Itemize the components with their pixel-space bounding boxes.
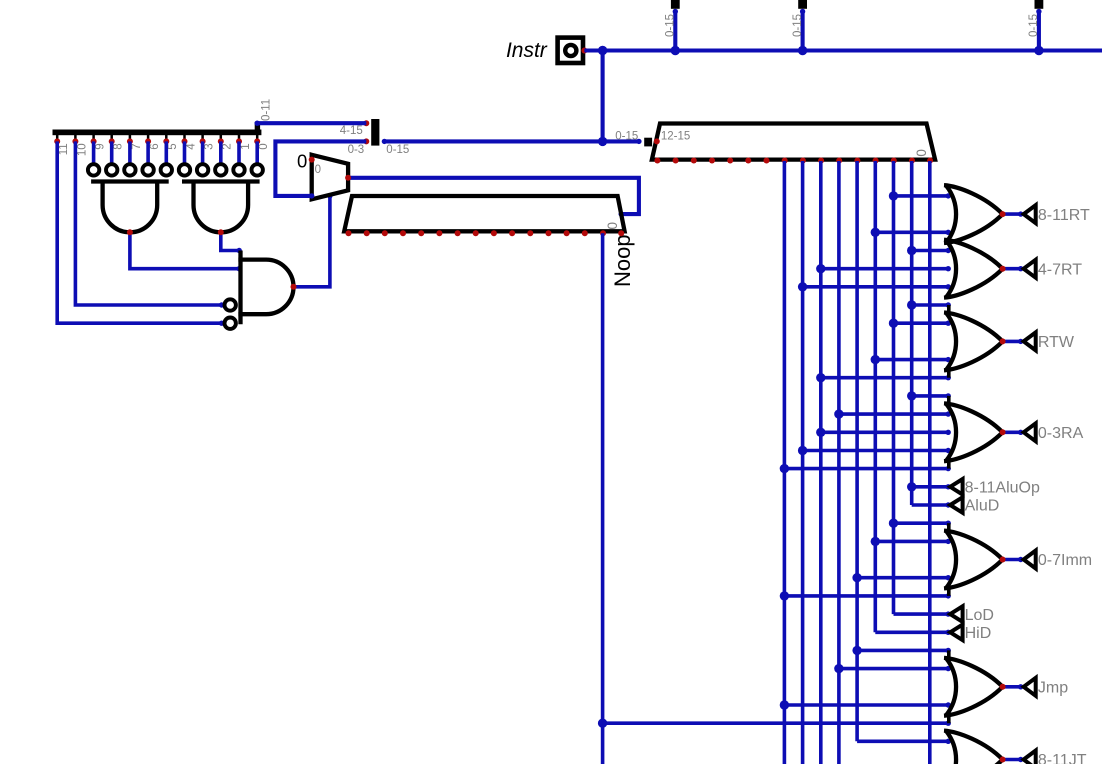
wire decoder output column x=802.6 bbox=[801, 161, 805, 764]
wire G5 input d bbox=[784, 594, 948, 598]
wire G6 input b bbox=[839, 667, 948, 671]
wire G3 input b bbox=[894, 321, 949, 325]
splitter pin 8 bbox=[110, 133, 113, 141]
wire G2 output bbox=[1003, 267, 1021, 271]
wire decoder output column x=893.5 bbox=[892, 161, 896, 614]
svg-text:0: 0 bbox=[315, 164, 321, 176]
splitter pin 3 bbox=[201, 133, 204, 141]
wire elbow col 14 to pin AluD bbox=[912, 503, 949, 507]
wire G2 input c bbox=[803, 285, 949, 289]
svg-text:5: 5 bbox=[167, 143, 179, 149]
red dot decoder Noop output 15 bbox=[618, 230, 624, 236]
wire G1 input b bbox=[875, 231, 948, 235]
output pin 0-3RA bbox=[1024, 423, 1036, 441]
wire G4 input a bbox=[912, 394, 949, 398]
svg-text:0-15: 0-15 bbox=[665, 14, 677, 37]
wire G1 output bbox=[1003, 212, 1021, 216]
splitter pin 7 bbox=[129, 133, 132, 141]
svg-text:AluD: AluD bbox=[965, 498, 1000, 515]
red dot decoder Noop output 1 bbox=[364, 230, 370, 236]
splitter 0-11 root riser bbox=[255, 122, 260, 131]
splitter pin 2 bbox=[220, 133, 223, 141]
wire G3 input c bbox=[875, 358, 948, 362]
wire G2 input b bbox=[821, 267, 948, 271]
wire G3 output bbox=[1003, 340, 1021, 344]
svg-text:8: 8 bbox=[113, 143, 125, 149]
wire pin 8-11AluOp bbox=[912, 485, 949, 489]
svg-text:8-11JT: 8-11JT bbox=[1038, 752, 1087, 764]
and gate with inverted inputs at x=220.8 bbox=[179, 164, 190, 175]
red dot Instr output bbox=[581, 48, 587, 54]
splitter pin 4 bbox=[183, 133, 186, 141]
wire pin 2 to inverter bubble bbox=[219, 141, 223, 163]
svg-text:10: 10 bbox=[76, 143, 88, 156]
svg-text:0-3: 0-3 bbox=[348, 144, 365, 156]
red dot decoder Noop output 14 bbox=[600, 230, 606, 236]
output pin HiD bbox=[950, 625, 962, 641]
splitter bar 4-15/0-3 to 0-15 bbox=[371, 119, 379, 146]
output pin LoD bbox=[950, 606, 962, 622]
output pin 4-7RT bbox=[1024, 260, 1036, 278]
red dot decoder Noop output 0 bbox=[346, 230, 352, 236]
wire G6 input d (long from Noop column) bbox=[603, 721, 949, 725]
wire pin 10 down-right to and gate U3 bbox=[75, 141, 221, 305]
wire stub up to splitter at x=675.3 bbox=[673, 10, 677, 51]
inverter bubble U3 input 4 bbox=[225, 318, 236, 329]
wire decoder output column x=857.1 bbox=[855, 161, 859, 741]
wire pin 0 to inverter bubble bbox=[255, 141, 259, 163]
output pin AluD bbox=[950, 497, 962, 513]
splitter handle (black square) bbox=[671, 0, 680, 9]
wire G5 output bbox=[1003, 558, 1021, 562]
red dot decoder U6 output 5 bbox=[745, 158, 751, 164]
red dot decoder Noop output 5 bbox=[436, 230, 442, 236]
wire G3 input a bbox=[912, 303, 949, 307]
red dot decoder U6 output 11 bbox=[854, 158, 860, 164]
wire bus Instr output along top bbox=[584, 48, 1102, 52]
svg-text:0: 0 bbox=[605, 222, 620, 230]
wire G3 input d bbox=[821, 376, 948, 380]
svg-text:0-15: 0-15 bbox=[615, 131, 638, 143]
svg-text:8-11RT: 8-11RT bbox=[1038, 207, 1090, 224]
svg-text:0-11: 0-11 bbox=[261, 99, 273, 121]
blue dot splitter pin 0-15 bbox=[382, 139, 387, 144]
wire G5 input c bbox=[857, 576, 948, 580]
red dot decoder U6 output 12 bbox=[873, 158, 879, 164]
wire G4 input d bbox=[803, 449, 949, 453]
splitter handle 12-15 (black square) bbox=[644, 138, 652, 147]
svg-text:9: 9 bbox=[95, 143, 107, 149]
wire mux input 1 from 0-3 splitter pin bbox=[275, 141, 366, 196]
output pin 0-7Imm bbox=[1024, 551, 1036, 569]
svg-text:0-3RA: 0-3RA bbox=[1038, 425, 1084, 442]
red dot decoder Noop output 11 bbox=[546, 230, 552, 236]
red dot decoder U6 output 3 bbox=[709, 158, 715, 164]
wire U1 output to U3 input bbox=[130, 232, 239, 268]
decoder U5 Noop bbox=[344, 196, 624, 231]
splitter handle (black square) bbox=[1035, 0, 1044, 9]
red dot splitter pin 4-15 bbox=[363, 120, 369, 126]
wire U2 output to U3 input bbox=[221, 232, 239, 250]
decoder U6 bbox=[652, 124, 935, 160]
or gate G3 RTW bbox=[946, 313, 956, 369]
splitter pin 10 bbox=[74, 133, 77, 141]
wire decoder output column x=929.8 bbox=[928, 161, 932, 764]
svg-text:LoD: LoD bbox=[965, 607, 994, 624]
svg-text:0: 0 bbox=[914, 149, 929, 157]
svg-text:2: 2 bbox=[222, 143, 234, 149]
splitter pin 6 bbox=[147, 133, 150, 141]
wire pin 6 to inverter bubble bbox=[146, 141, 150, 163]
wire decoder output column x=820.8 bbox=[819, 161, 823, 764]
or gate G5 0-7Imm bbox=[946, 531, 956, 587]
svg-text:0: 0 bbox=[297, 150, 307, 171]
red dot decoder U6 output 13 bbox=[891, 158, 897, 164]
wire bus Instr down to splitter row bbox=[601, 51, 605, 142]
red dot splitter pin 0-3 bbox=[363, 138, 369, 144]
wire G6 input c bbox=[784, 703, 948, 707]
red dot decoder Noop output 12 bbox=[564, 230, 570, 236]
svg-text:0-15: 0-15 bbox=[386, 144, 409, 156]
red dot decoder U6 output 4 bbox=[727, 158, 733, 164]
or gate G1 8-11RT bbox=[946, 186, 956, 242]
red dot decoder U6 output 0 bbox=[654, 158, 660, 164]
wire G4 input b bbox=[839, 412, 948, 416]
svg-text:7: 7 bbox=[131, 143, 143, 149]
splitter pin 5 bbox=[165, 133, 168, 141]
wire G6 output bbox=[1003, 685, 1021, 689]
wire G5 input a bbox=[894, 521, 949, 525]
wire decoder output column x=838.9 bbox=[837, 161, 841, 764]
red dot decoder U6 output 15 bbox=[927, 158, 933, 164]
wire pin 1 to inverter bubble bbox=[237, 141, 241, 163]
and gate with inverted inputs at x=129.9 bbox=[88, 164, 99, 175]
wire elbow col 11 to gate G7 bbox=[857, 739, 948, 743]
svg-text:0: 0 bbox=[258, 143, 270, 149]
splitter handle (black square) bbox=[798, 0, 807, 9]
wire G2 input a bbox=[912, 249, 949, 253]
splitter pin 0 bbox=[256, 133, 259, 141]
svg-text:4-7RT: 4-7RT bbox=[1038, 261, 1082, 278]
or gate G4 0-3RA bbox=[946, 404, 956, 460]
wire decoder Noop output 14 long column bbox=[601, 233, 605, 764]
wire G4 output bbox=[1003, 430, 1021, 434]
and gate U3 bbox=[238, 251, 242, 325]
red dot decoder Noop output 3 bbox=[400, 230, 406, 236]
or gate G6 Jmp bbox=[946, 659, 956, 715]
splitter pin 9 bbox=[92, 133, 95, 141]
svg-text:3: 3 bbox=[204, 143, 216, 149]
red dot decoder U6 output 2 bbox=[691, 158, 697, 164]
svg-text:0-15: 0-15 bbox=[1028, 14, 1040, 37]
red dot decoder Noop output 2 bbox=[382, 230, 388, 236]
wire decoder output column x=784.4 bbox=[783, 161, 787, 764]
output pin 8-11RT bbox=[1024, 205, 1036, 223]
wire pin 11 down-right to and gate U3 bbox=[57, 141, 221, 323]
inverter bubble U3 input 3 bbox=[225, 299, 236, 310]
red dot decoder Noop output 9 bbox=[509, 230, 515, 236]
output pin 8-11AluOp bbox=[950, 479, 962, 495]
wire elbow col 12 to pin HiD bbox=[875, 630, 948, 634]
wire G5 input b bbox=[875, 540, 948, 544]
red dot decoder U6 input bbox=[654, 138, 660, 144]
splitter pin 11 bbox=[56, 133, 59, 141]
wire bus 0-11 from splitter root bbox=[257, 121, 366, 125]
connection dots layer bbox=[127, 229, 133, 235]
wire pin 5 to inverter bubble bbox=[165, 141, 169, 163]
output pin RTW bbox=[1024, 332, 1036, 350]
svg-text:1: 1 bbox=[240, 143, 252, 149]
red dot constant output / mux input 0 bbox=[309, 157, 315, 163]
wire G1 input a bbox=[894, 194, 949, 198]
svg-text:0-7Imm: 0-7Imm bbox=[1038, 552, 1092, 569]
svg-text:6: 6 bbox=[149, 143, 161, 149]
red dot decoder U6 output 1 bbox=[673, 158, 679, 164]
output pin Jmp bbox=[1024, 678, 1036, 696]
red dot decoder Noop output 7 bbox=[473, 230, 479, 236]
svg-text:HiD: HiD bbox=[965, 625, 992, 642]
svg-text:8-11AluOp: 8-11AluOp bbox=[965, 480, 1040, 497]
svg-text:Noop: Noop bbox=[610, 234, 635, 287]
wire G6 input a bbox=[857, 649, 948, 653]
svg-text:0-15: 0-15 bbox=[792, 14, 804, 37]
output pin 8-11JT bbox=[1024, 751, 1036, 764]
red dot decoder Noop output 4 bbox=[418, 230, 424, 236]
wire pin 3 to inverter bubble bbox=[201, 141, 205, 163]
junction node long column bbox=[598, 719, 607, 728]
svg-text:12-15: 12-15 bbox=[661, 131, 690, 143]
wire stub up to splitter at x=802.6 bbox=[801, 10, 805, 51]
red dot decoder U6 output 7 bbox=[782, 158, 788, 164]
wire pin 8 to inverter bubble bbox=[110, 141, 114, 163]
red dot decoder U6 output 6 bbox=[764, 158, 770, 164]
wire bus mux output to decoder Noop select bbox=[348, 178, 639, 214]
input pin Instr bbox=[558, 38, 583, 63]
wire decoder output column x=911.7 bbox=[910, 161, 914, 505]
red dot decoder Noop output 6 bbox=[455, 230, 461, 236]
wire G4 input e bbox=[784, 467, 948, 471]
red dot decoder U6 output 14 bbox=[909, 158, 915, 164]
wire G7 output bbox=[1003, 758, 1021, 762]
wire pin 7 to inverter bubble bbox=[128, 141, 132, 163]
svg-text:Instr: Instr bbox=[506, 39, 548, 62]
wire G4 input c bbox=[821, 430, 948, 434]
red dot decoder Noop output 10 bbox=[527, 230, 533, 236]
junction node on Instr bus bbox=[598, 46, 607, 55]
wire decoder output column x=875.3 bbox=[873, 161, 877, 632]
junction node at 0-15 row bbox=[598, 137, 607, 146]
red dot decoder U6 output 9 bbox=[818, 158, 824, 164]
svg-text:4: 4 bbox=[185, 143, 197, 150]
mux U4 bbox=[312, 155, 348, 200]
or gate G7 8-11JT bbox=[946, 731, 956, 764]
wire U3 output to mux select bbox=[294, 196, 330, 287]
svg-text:Jmp: Jmp bbox=[1038, 680, 1068, 697]
wire bus 0-15 toward splitter 12-15 bbox=[384, 139, 639, 143]
wire stub up to splitter at x=1038.9 bbox=[1037, 10, 1041, 51]
svg-text:RTW: RTW bbox=[1038, 334, 1075, 351]
wire pin 9 to inverter bubble bbox=[92, 141, 96, 163]
splitter 0-11 bar bbox=[53, 130, 262, 136]
wire pin 4 to inverter bubble bbox=[183, 141, 187, 163]
splitter pin 1 bbox=[238, 133, 241, 141]
svg-text:4-15: 4-15 bbox=[340, 125, 363, 137]
red dot decoder Noop output 13 bbox=[582, 230, 588, 236]
red dot decoder U6 output 8 bbox=[800, 158, 806, 164]
wire elbow col 13 to pin LoD bbox=[894, 612, 949, 616]
red dot decoder Noop output 8 bbox=[491, 230, 497, 236]
svg-text:11: 11 bbox=[58, 143, 70, 155]
red dot decoder U6 output 10 bbox=[836, 158, 842, 164]
or gate G2 4-7RT bbox=[946, 241, 956, 297]
